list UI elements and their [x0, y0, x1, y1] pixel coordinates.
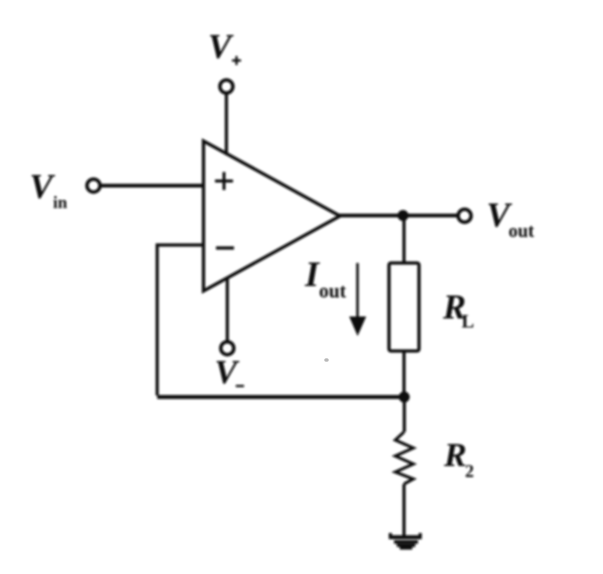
- label RL: [442, 289, 474, 333]
- node output junction: [398, 210, 409, 221]
- op-amp U1: [204, 141, 341, 291]
- ground: [389, 533, 422, 550]
- label Vin: [30, 167, 68, 212]
- terminal Vout: [458, 209, 471, 222]
- node B feedback junction: [399, 392, 410, 403]
- svg-text:in: in: [53, 193, 68, 212]
- svg-text:2: 2: [465, 461, 474, 481]
- wire R2 to ground: [402, 484, 405, 536]
- label R2: [443, 437, 474, 481]
- wire output: [339, 214, 458, 218]
- wire node B to R2: [403, 397, 406, 432]
- label Vout: [487, 196, 536, 243]
- current arrow Iout: [349, 263, 366, 336]
- resistor R2: [395, 432, 413, 484]
- svg-text:V: V: [215, 354, 240, 391]
- wire feedback from - input: [157, 245, 205, 396]
- terminal V-: [221, 342, 234, 355]
- wire V+ to op-amp: [225, 94, 228, 155]
- wire Vin to + input: [100, 184, 205, 188]
- svg-text:V: V: [208, 27, 234, 66]
- wire V- to op-amp: [226, 278, 229, 342]
- terminal Vin: [87, 179, 100, 192]
- terminal V+: [220, 80, 233, 93]
- svg-text:out: out: [509, 222, 536, 242]
- svg-text:out: out: [319, 282, 347, 303]
- label V+: [208, 27, 241, 66]
- svg-text:R: R: [443, 437, 467, 474]
- label Iout: [304, 254, 347, 303]
- svg-text:V: V: [30, 167, 56, 206]
- label V-: [215, 354, 245, 391]
- svg-text:L: L: [462, 312, 475, 333]
- wire junction to RL: [402, 216, 405, 263]
- resistor RL: [389, 263, 419, 351]
- wire feedback bottom: [157, 395, 404, 399]
- wire RL to node B: [402, 351, 405, 397]
